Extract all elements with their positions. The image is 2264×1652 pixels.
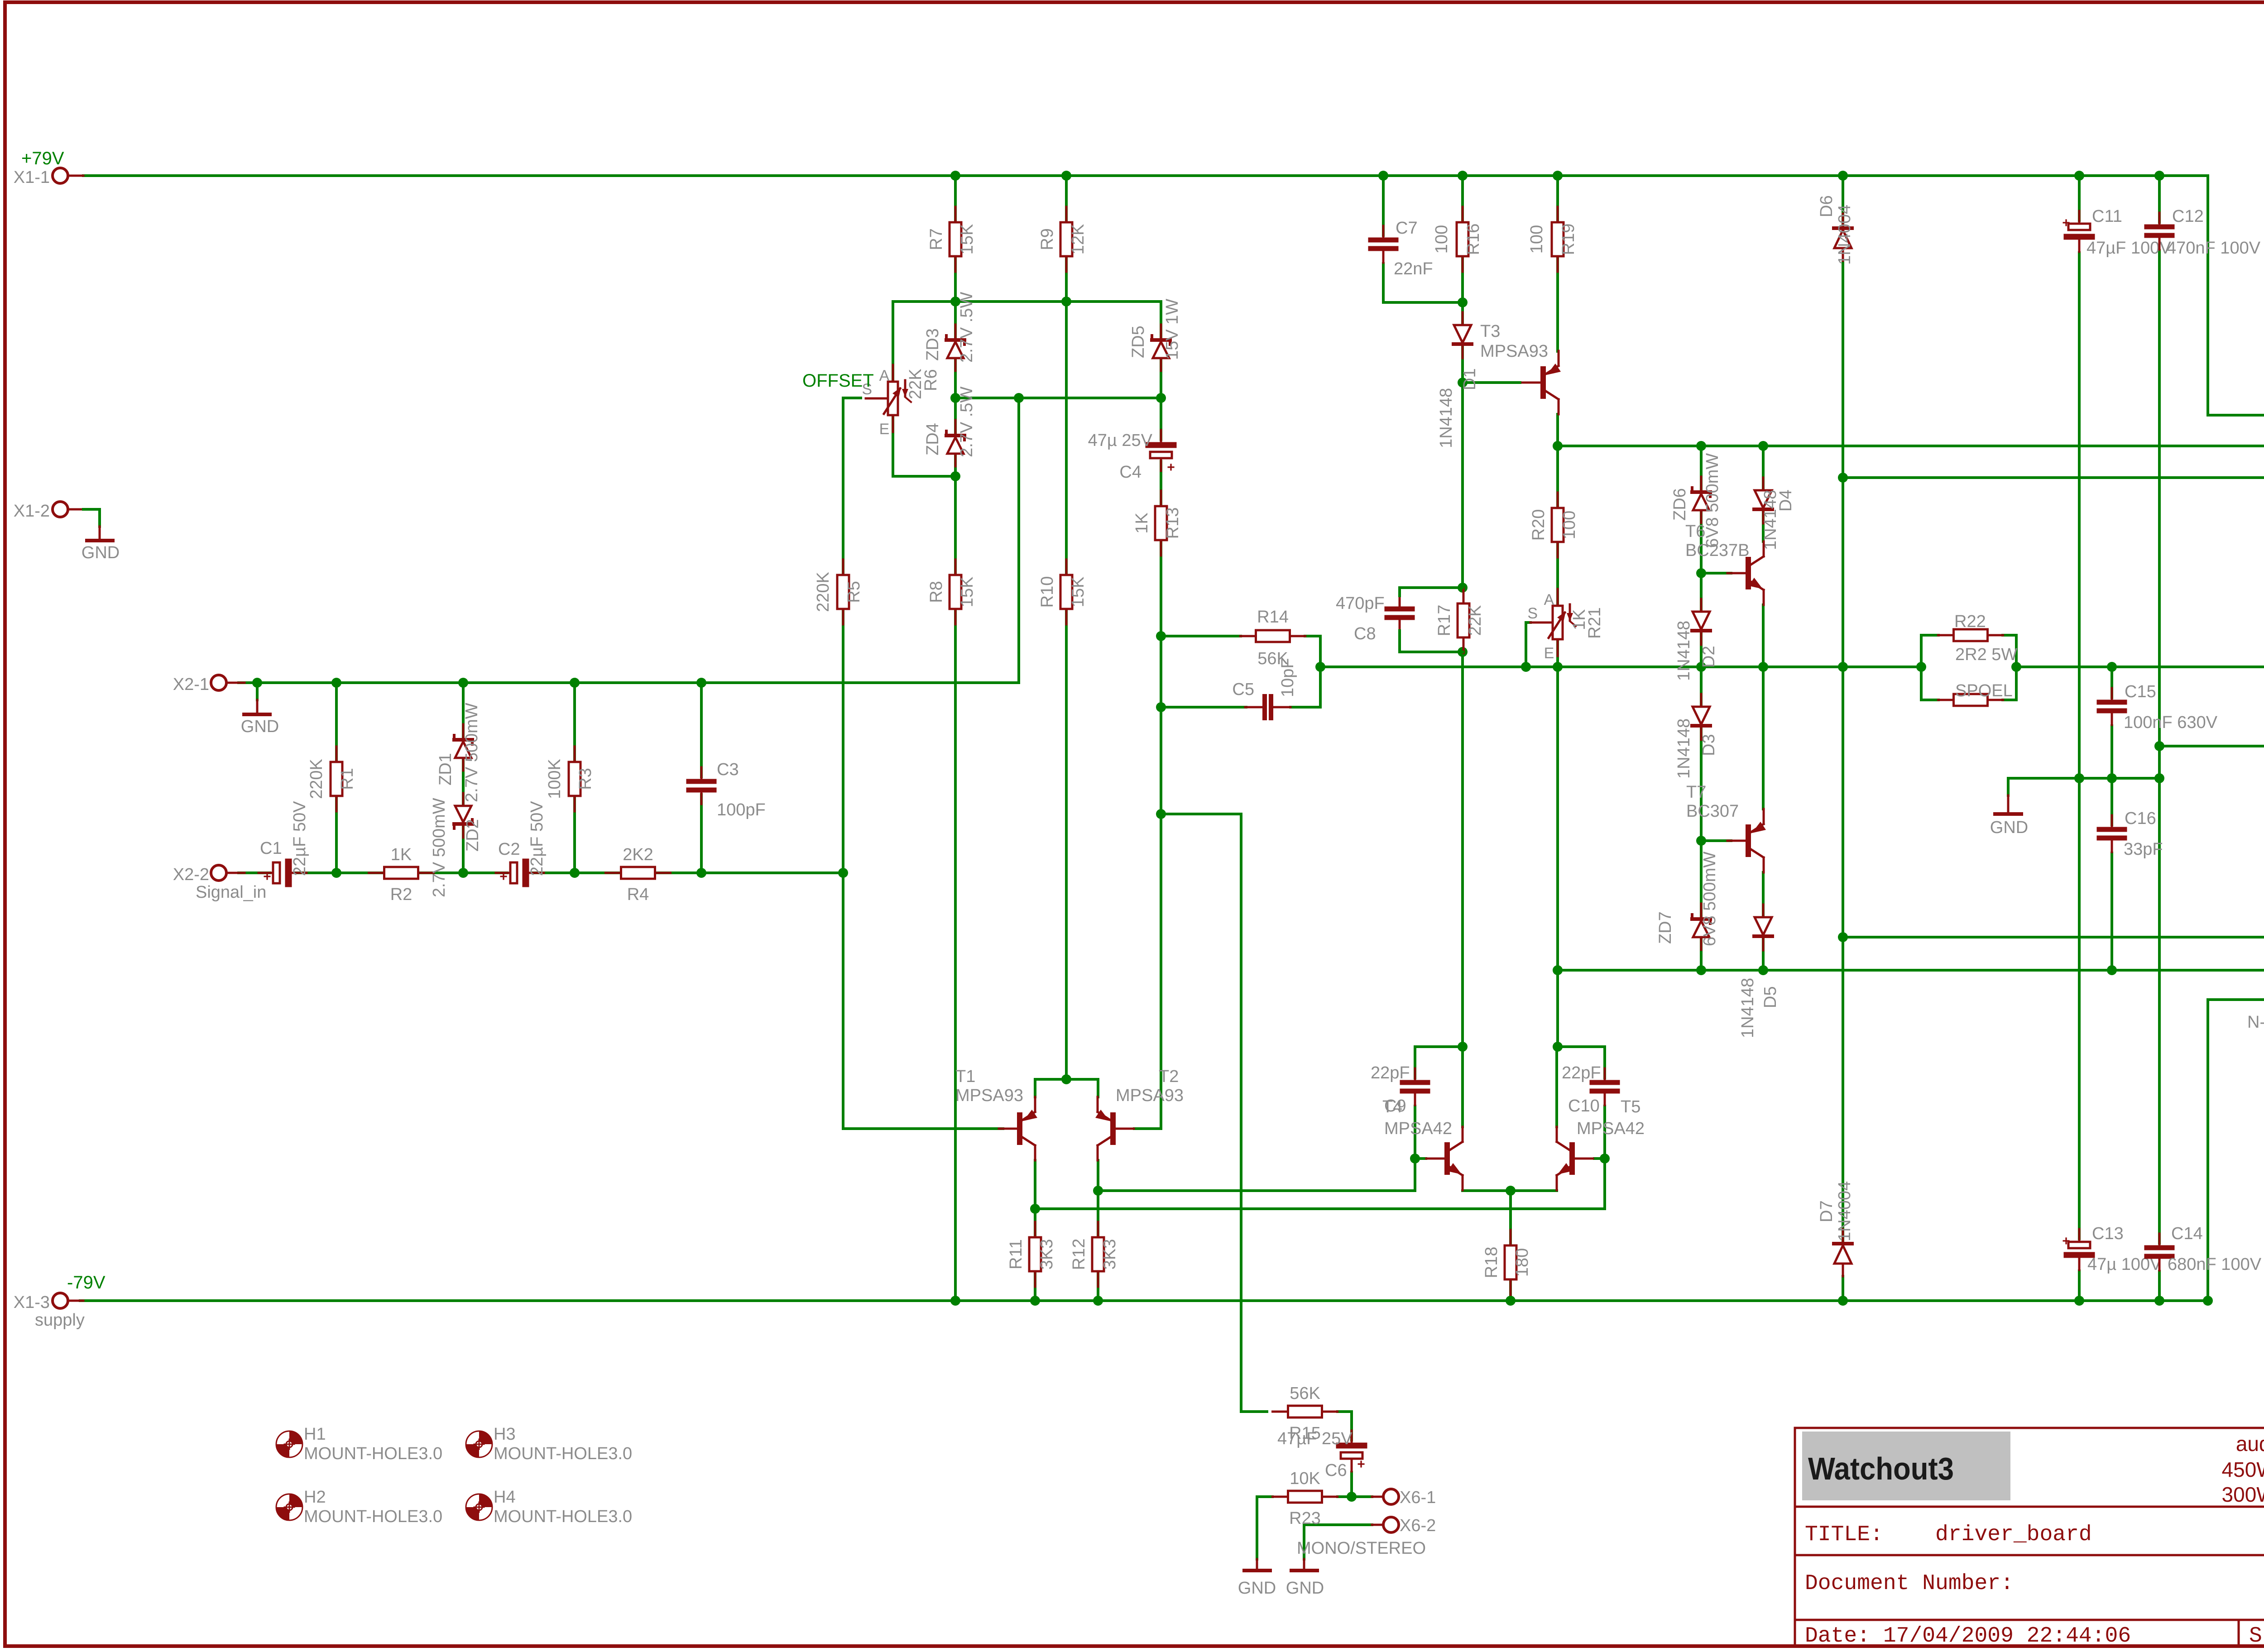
svg-text:6V8 500mW: 6V8 500mW [1703, 453, 1722, 548]
svg-text:R3: R3 [576, 768, 595, 790]
resistor R16 [1432, 207, 1483, 272]
wire R16 D1 column [1461, 176, 1464, 383]
svg-text:100: 100 [1432, 225, 1451, 254]
node junction 0 [950, 171, 960, 181]
inductor SPOEL [1938, 694, 2003, 706]
capacitor C9 [1402, 1068, 1428, 1105]
wire C11 column [2078, 176, 2081, 224]
node junction 68 [1838, 1296, 1848, 1306]
wire T3 emitter up [1556, 273, 1559, 351]
svg-text:H2: H2 [304, 1488, 326, 1507]
capacitor C1 [259, 862, 307, 884]
svg-text:MOUNT-HOLE3.0: MOUNT-HOLE3.0 [304, 1444, 442, 1463]
resistor R5 [814, 560, 863, 624]
wire source P row X5-3 [1843, 476, 2264, 479]
node junction 54 [2154, 773, 2164, 783]
resistor R1 [307, 747, 357, 811]
resistor R18 [1482, 1230, 1532, 1295]
wire gate P row X5-2 [1558, 445, 2264, 447]
svg-text:R19: R19 [1559, 224, 1578, 255]
svg-text:X2-2: X2-2 [173, 865, 209, 884]
svg-text:T4: T4 [1382, 1097, 1402, 1116]
wire gate N row X4-2 [1558, 969, 2264, 972]
svg-text:-79V: -79V [67, 1273, 106, 1293]
svg-text:MONO/STEREO: MONO/STEREO [1297, 1539, 1426, 1558]
node junction 58 [1506, 1186, 1516, 1196]
svg-text:1N4148: 1N4148 [1674, 621, 1693, 681]
label C12 [2167, 207, 2261, 258]
node junction 28 [1758, 441, 1768, 451]
svg-text:R10: R10 [1038, 576, 1057, 608]
wire ZD7 to gate row [1700, 938, 1703, 970]
label C9 [1371, 1063, 1410, 1116]
capacitor C6 [1339, 1431, 1365, 1472]
node junction 37 [1553, 662, 1563, 672]
wire ZD6 top [1700, 446, 1703, 490]
label D2 [1674, 621, 1718, 681]
svg-text:X6-1: X6-1 [1400, 1488, 1436, 1507]
wire T7 base stub [1701, 839, 1731, 842]
wire X4-3 drain to rail [2208, 1000, 2264, 1301]
capacitor C4 [1148, 430, 1175, 475]
svg-text:15K: 15K [958, 224, 977, 255]
node junction 47 [1696, 965, 1706, 975]
node junction 36 [1521, 662, 1531, 672]
svg-text:D3: D3 [1699, 734, 1718, 756]
node junction 63 [1347, 1492, 1357, 1502]
label C1 [260, 801, 309, 876]
node junction 41 [1916, 662, 1926, 672]
label C13 [2087, 1224, 2162, 1274]
svg-text:R6: R6 [921, 369, 940, 391]
wire row T2coll to T4 base [1098, 1159, 1415, 1191]
zener ZD7 [1656, 852, 1719, 950]
wire T3 base wire [1463, 381, 1520, 384]
capacitor C2 [496, 862, 544, 884]
label T3 [1480, 322, 1548, 361]
wire R23 right to X6-1 [1338, 1495, 1372, 1498]
resistor R17 [1435, 588, 1485, 653]
node junction 43 [2107, 662, 2117, 672]
svg-text:T1: T1 [955, 1067, 975, 1086]
transistor T3 [1522, 351, 1561, 414]
label C4 [1088, 431, 1153, 482]
wire spoel right stub [2003, 699, 2016, 701]
label C5 [1232, 658, 1297, 699]
capacitor C5 [1245, 696, 1290, 718]
label C7 [1394, 219, 1433, 278]
pin X1-1 circle [14, 148, 83, 187]
svg-text:MPSA93: MPSA93 [1480, 342, 1548, 361]
wire pot R21 E down [1556, 639, 1559, 667]
label C6 [1277, 1429, 1353, 1480]
pin X1-2 [14, 502, 100, 527]
node junction 16 [458, 678, 468, 688]
svg-text:R13: R13 [1163, 508, 1182, 539]
svg-text:R2: R2 [390, 885, 413, 904]
svg-text:R17: R17 [1435, 605, 1454, 637]
capacitor C3 [689, 767, 714, 804]
wire T7 emitter up [1762, 667, 1765, 809]
wire T1 emitter [1035, 1079, 1066, 1097]
svg-text:MPSA93: MPSA93 [1116, 1086, 1184, 1105]
node junction 71 [2203, 1296, 2213, 1306]
wire C13 column [2078, 778, 2081, 1242]
svg-text:2.7V 500mW: 2.7V 500mW [430, 798, 449, 897]
ground symbol C15C16 [1990, 778, 2028, 837]
svg-text:+: + [1167, 460, 1175, 475]
svg-text:R21: R21 [1585, 607, 1604, 639]
resistor R3 [545, 747, 595, 811]
label D3 [1674, 718, 1718, 779]
svg-text:220K: 220K [814, 572, 833, 612]
svg-text:2.7V 500mW: 2.7V 500mW [462, 703, 481, 802]
svg-text:R18: R18 [1482, 1247, 1501, 1279]
mount hole H2 [276, 1488, 442, 1526]
wire T4 T5 emitter row [1463, 1189, 1557, 1192]
wire R20 to pot [1556, 542, 1559, 606]
wire out to X3-2 [2016, 666, 2264, 668]
wire R5 column wiper to T1 base [843, 398, 1003, 1129]
node junction 6 [2074, 171, 2084, 181]
svg-text:S: S [1527, 605, 1538, 622]
svg-text:22µF 50V: 22µF 50V [290, 801, 309, 876]
ground symbol R23 [1238, 1559, 1276, 1598]
wire gnd row 1719 [2008, 777, 2159, 780]
wire R22 right stubs [2003, 634, 2016, 637]
wire R22 bracket right [2015, 635, 2018, 700]
svg-text:2.7V .5W: 2.7V .5W [957, 387, 976, 457]
diode D3 [1692, 694, 1710, 740]
svg-text:R22: R22 [1954, 612, 1986, 631]
label C14 [2168, 1224, 2262, 1274]
node junction 11 [1014, 393, 1024, 403]
wire pot R6 E to ZD4 bottom [893, 415, 955, 476]
svg-text:Signal_in: Signal_in [196, 883, 266, 902]
capacitor C16 [2099, 815, 2125, 852]
svg-text:ZD1: ZD1 [436, 753, 455, 785]
svg-text:D2: D2 [1699, 646, 1718, 668]
ground symbol X1-2 [82, 527, 120, 562]
svg-text:E: E [1544, 645, 1554, 662]
svg-text:N-mosfets: N-mosfets [2247, 1013, 2264, 1032]
svg-text:A: A [879, 367, 890, 384]
svg-text:ZD4: ZD4 [923, 423, 942, 455]
resistor R14 [1241, 608, 1305, 668]
trimmer R21 [1527, 589, 1576, 662]
wire D3 to T7 base node [1700, 727, 1703, 841]
svg-text:ZD7: ZD7 [1656, 911, 1675, 944]
wire T2 emitter [1066, 1079, 1098, 1097]
label C10 [1562, 1063, 1601, 1116]
wire R11 bottom [1034, 1271, 1036, 1301]
node junction 34 [1156, 809, 1166, 819]
wire C8R17 bottom to T4 collector [1461, 652, 1464, 1047]
svg-text:C6: C6 [1325, 1461, 1347, 1480]
label T1 [955, 1067, 1023, 1105]
node junction 61 [1410, 1154, 1420, 1164]
svg-text:2R2 5W: 2R2 5W [1955, 645, 2017, 664]
pin X6-1 [1372, 1488, 1436, 1507]
wire R14/C5 left bracket [1160, 636, 1162, 707]
capacitor C8 [1387, 595, 1412, 632]
label C2 [498, 801, 547, 876]
wire C8 top bracket [1398, 588, 1401, 596]
svg-text:OFFSET: OFFSET [802, 371, 874, 391]
label C8 [1336, 594, 1385, 643]
svg-text:T6: T6 [1685, 522, 1705, 541]
node junction 51 [2154, 741, 2164, 751]
wire R7 column [954, 176, 957, 302]
node junction 2 [1378, 171, 1388, 181]
svg-text:300W @ 8 Ohm: 300W @ 8 Ohm [2222, 1483, 2264, 1506]
pin X2-2 [173, 865, 267, 902]
svg-text:H1: H1 [304, 1425, 326, 1444]
svg-text:100pF: 100pF [717, 800, 766, 819]
svg-text:R20: R20 [1529, 509, 1548, 541]
svg-text:BC307: BC307 [1686, 802, 1739, 821]
node junction 35 [1315, 662, 1325, 672]
svg-text:C5: C5 [1232, 680, 1254, 699]
wire net +79V rail [83, 176, 2264, 415]
node junction 27 [1696, 441, 1706, 451]
zener ZD2 [430, 793, 482, 897]
svg-text:R9: R9 [1038, 228, 1057, 250]
svg-text:T5: T5 [1621, 1097, 1640, 1116]
svg-text:C15: C15 [2125, 682, 2156, 701]
svg-text:470nF 100V: 470nF 100V [2167, 239, 2261, 258]
node junction 48 [1758, 965, 1768, 975]
svg-text:MOUNT-HOLE3.0: MOUNT-HOLE3.0 [304, 1507, 442, 1526]
wire C9 bracket [1415, 1047, 1463, 1081]
wire R14 right [1290, 636, 1320, 707]
svg-text:6V8 500mW: 6V8 500mW [1700, 852, 1719, 946]
svg-text:D4: D4 [1776, 489, 1795, 512]
wire C8 top bracket h [1400, 586, 1463, 589]
resistor R15 [1273, 1384, 1338, 1443]
capacitor C15 [2099, 688, 2125, 725]
ground symbol X2-1 [241, 683, 279, 736]
svg-text:100nF 630V: 100nF 630V [2124, 713, 2218, 732]
label T7 [1686, 783, 1739, 821]
node junction 40 [1838, 662, 1848, 672]
svg-text:C14: C14 [2171, 1224, 2203, 1243]
wire OUT column [1842, 263, 1844, 1242]
svg-text:+: + [263, 869, 271, 884]
node junction 31 [1458, 647, 1468, 657]
svg-text:2K2: 2K2 [623, 845, 653, 864]
wire T6 base node to D2 [1700, 573, 1703, 612]
wire T6 base stub [1701, 572, 1731, 575]
wire ZD5 bottom [1160, 359, 1162, 398]
wire T1 collector down [1034, 1160, 1036, 1237]
diode D1 [1453, 312, 1472, 358]
svg-text:audio amplifier: audio amplifier [2236, 1432, 2264, 1456]
node junction 18 [696, 678, 706, 688]
svg-text:R11: R11 [1007, 1239, 1026, 1269]
diode D7 [1834, 1229, 1852, 1276]
wire ZD6 to T6 base node [1700, 511, 1703, 573]
svg-text:GND: GND [1238, 1579, 1276, 1598]
wire C9 bottom [1414, 1106, 1416, 1159]
svg-text:56K: 56K [1290, 1384, 1320, 1403]
wire D1 to C8 top [1461, 356, 1464, 588]
svg-text:GND: GND [1990, 818, 2028, 837]
svg-text:15V 1W: 15V 1W [1163, 299, 1182, 360]
svg-text:470pF: 470pF [1336, 594, 1385, 613]
title block date [1805, 1624, 2264, 1648]
wire T4 base stub [1415, 1157, 1426, 1160]
node junction 25 [1458, 378, 1468, 388]
title block description [2222, 1432, 2264, 1506]
node junction 65 [1030, 1296, 1040, 1306]
title block TITLE row [1805, 1523, 2092, 1547]
svg-text:Document Number:: Document Number: [1805, 1571, 2014, 1596]
node junction 24 [1458, 297, 1468, 307]
wire T4 collector up [1461, 1047, 1464, 1127]
svg-text:TITLE: driver_board: TITLE: driver_board [1805, 1523, 2092, 1547]
svg-text:ZD5: ZD5 [1129, 326, 1148, 358]
resistor R10 [1038, 560, 1088, 624]
wire D7 to rail [1842, 1276, 1844, 1301]
pin X4-3 [2247, 986, 2264, 1032]
wire R9 column [1065, 176, 1068, 302]
transistor T6 [1727, 541, 1764, 605]
svg-text:E: E [879, 421, 890, 438]
svg-text:12K: 12K [1069, 224, 1088, 255]
wire X2-1 gnd row [239, 398, 1019, 683]
svg-text:T3: T3 [1480, 322, 1500, 341]
label D6 [1817, 195, 1854, 265]
wire row below R7/R9 [893, 302, 1161, 338]
svg-text:1N4148: 1N4148 [1674, 718, 1693, 779]
wire D6 D7 OUT column [1842, 176, 1844, 228]
node junction 9 [1061, 297, 1071, 306]
svg-text:R7: R7 [927, 228, 946, 250]
resistor R20 [1529, 493, 1579, 557]
wire T6 emitter down [1762, 605, 1765, 667]
svg-text:H3: H3 [494, 1425, 516, 1444]
mount hole H3 [466, 1425, 632, 1463]
wire spoel bottom stub [1921, 699, 1938, 701]
resistor R9 [1038, 207, 1088, 272]
svg-text:+: + [1357, 1457, 1365, 1472]
svg-text:10pF: 10pF [1278, 658, 1297, 697]
wire ZD1 ZD2 column [462, 683, 465, 873]
svg-text:H4: H4 [494, 1488, 516, 1507]
svg-text:1N4148: 1N4148 [1437, 388, 1456, 448]
wire C11 bottom long [2078, 253, 2081, 778]
resistor R12 [1070, 1222, 1119, 1287]
svg-text:1N4004: 1N4004 [1835, 205, 1854, 265]
resistor R2 [369, 845, 434, 904]
label R22 [1954, 612, 2017, 664]
wire C16 bottom to gate row [2111, 853, 2113, 970]
svg-text:47µF 25V: 47µF 25V [1277, 1429, 1353, 1448]
svg-text:100K: 100K [545, 759, 564, 799]
node junction 33 [1156, 702, 1166, 712]
wire row T1coll to T5 base [1035, 1159, 1605, 1209]
zener ZD5 [1129, 299, 1182, 371]
wire C8 bottom bracket [1400, 631, 1463, 652]
wire C16 column [2111, 778, 2113, 828]
svg-text:3K3: 3K3 [1037, 1239, 1056, 1270]
label T6 [1685, 522, 1750, 560]
wire R3 column [573, 683, 576, 873]
svg-text:22K: 22K [1466, 605, 1485, 636]
svg-text:450W @ 4 Ohm: 450W @ 4 Ohm [2222, 1458, 2264, 1481]
wire C4 R13 T2-base column [1134, 398, 1161, 1129]
node junction 8 [950, 297, 960, 306]
wire D4 top [1762, 446, 1765, 490]
svg-text:R8: R8 [927, 581, 946, 603]
wire R1 column [335, 683, 338, 873]
capacitor C11 [2062, 211, 2092, 252]
pin X2-1 [173, 675, 245, 694]
wire R22 top stub [1921, 634, 1938, 637]
svg-text:C16: C16 [2125, 809, 2156, 828]
transistor T1 [999, 1097, 1037, 1160]
node junction 23 [838, 868, 848, 878]
node junction 53 [2107, 773, 2117, 783]
svg-text:X2-1: X2-1 [173, 675, 209, 694]
wire C6 bottom [1350, 1472, 1353, 1497]
node junction 19 [331, 868, 341, 878]
node junction 70 [2154, 1296, 2164, 1306]
svg-text:C8: C8 [1354, 624, 1376, 643]
svg-text:180: 180 [1513, 1248, 1532, 1277]
wire C10 bottom [1603, 1106, 1606, 1159]
node junction 44 [1696, 568, 1706, 578]
svg-text:C12: C12 [2172, 207, 2204, 226]
wire C7 column [1382, 176, 1385, 239]
node junction 66 [1093, 1296, 1103, 1306]
label R21 [1570, 607, 1604, 639]
svg-text:R4: R4 [627, 885, 649, 904]
capacitor C7 [1371, 226, 1396, 263]
wire GND_out row [2159, 745, 2264, 747]
svg-text:1K: 1K [1132, 512, 1151, 533]
transistor T7 [1727, 809, 1766, 872]
wire C15 column [2111, 667, 2113, 701]
svg-text:47µ 25V: 47µ 25V [1088, 431, 1153, 450]
wire R23 left to GND [1257, 1497, 1272, 1559]
wire D2 to row [1700, 632, 1703, 667]
wire R22 bracket left [1920, 635, 1923, 700]
node junction 21 [570, 868, 580, 878]
svg-text:+: + [499, 869, 508, 884]
node junction 50 [1838, 932, 1848, 942]
svg-text:1K: 1K [391, 845, 412, 864]
svg-text:100: 100 [1560, 511, 1579, 539]
svg-text:100: 100 [1527, 225, 1546, 254]
node junction 56 [1093, 1186, 1103, 1196]
node junction 29 [1838, 473, 1848, 483]
wire T2 collector down [1097, 1160, 1099, 1237]
svg-text:R16: R16 [1464, 224, 1483, 255]
node junction 14 [252, 678, 262, 688]
resistor R13 [1132, 491, 1182, 555]
svg-text:C2: C2 [498, 840, 520, 859]
svg-text:+: + [2062, 1234, 2070, 1249]
diode D5 [1754, 905, 1772, 950]
svg-text:X1-3: X1-3 [14, 1293, 50, 1312]
wire R8 column [954, 476, 957, 1301]
svg-text:22nF: 22nF [1394, 259, 1433, 278]
wire C7 bottom to D1 [1383, 263, 1463, 302]
label R6 [802, 369, 940, 399]
svg-text:+79V: +79V [21, 148, 64, 168]
